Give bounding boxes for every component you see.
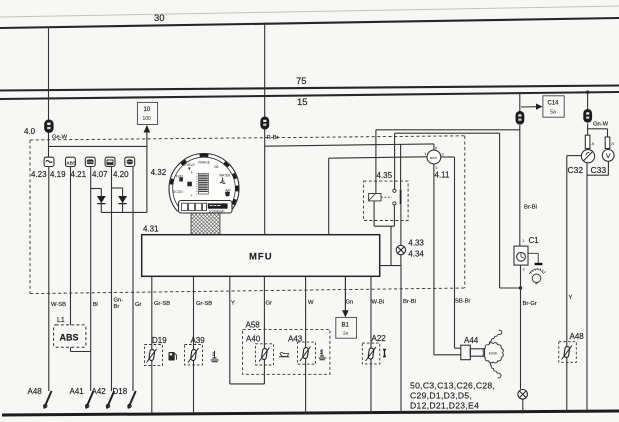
clock C1 [514,236,539,272]
wire W-Bl pin7 to A22 [370,277,372,414]
svg-text:V: V [606,153,611,160]
svg-text:C32: C32 [568,165,584,175]
svg-text:A48: A48 [570,332,585,341]
svg-text:4.07: 4.07 [92,170,108,179]
ground bus bottom [2,411,619,415]
fuel computer B1 [336,317,357,338]
warning lamp 4.33 4.34 [396,204,424,266]
svg-text:MFU: MFU [249,252,273,263]
sender A22 [362,334,386,364]
ABS control unit L1 [54,317,91,352]
clock C1 lamp to ground [528,253,545,284]
warning lamp 4.20 [113,157,135,179]
voltmeter C33 [591,150,615,176]
wire Gr pin4 to A40 [263,277,265,384]
dashed boundary box 4.0 [24,127,465,294]
inline connector a (C33) [605,137,614,149]
cluster connector stem (crosshatched) [191,213,220,235]
svg-text:15: 15 [297,97,308,108]
bottom switch D18 [113,387,136,409]
wire Gn-W from bus 15 [586,91,609,136]
connector capsule on Ge-W wire [44,120,53,133]
svg-text:A39: A39 [191,336,206,345]
svg-text:Gr: Gr [135,302,142,308]
wire R-Br from bus 30 [265,23,279,235]
svg-text:D12,D21,D23,E4: D12,D21,D23,E4 [410,401,479,411]
wire W pin5 to A43 [305,277,307,414]
diode D a [91,189,106,213]
svg-text:4.33: 4.33 [408,239,424,248]
svg-text:Gn: Gn [346,300,354,306]
svg-text:Y: Y [569,295,573,301]
sender A39 [185,336,219,365]
bottom switch A41 [70,387,94,409]
svg-text:km/h: km/h [430,156,437,160]
svg-text:Gr: Gr [266,301,273,307]
sender A48 right [559,332,584,362]
svg-text:C33: C33 [591,165,607,175]
fuel gauge C32 [568,150,595,175]
wire Ge-W from bus 30 [49,27,68,158]
fuse box C14 5a [543,96,564,117]
wire Bl from 4.21 down [90,167,92,392]
svg-text:W-Bl: W-Bl [372,300,384,306]
svg-text:ABS: ABS [66,161,76,166]
svg-text:4.31: 4.31 [143,225,159,234]
svg-text:OIL: OIL [214,165,219,169]
bus 15 [0,92,619,108]
warning lamp 4.23 [31,157,54,179]
wire Gr-SB pin1 to D19 [151,277,153,414]
wire R-Br horizontal branch to 4.11 pin 4 [265,144,434,150]
cluster odometer window [179,201,233,214]
svg-text:L1: L1 [57,317,65,324]
bottom switch A48 [28,387,52,409]
svg-text:4.20: 4.20 [113,170,129,179]
wire relay contact to Br-Gr junction [395,133,523,289]
sender A43 [288,335,326,365]
warning lamp feed rail [49,145,147,147]
wire Gr from 4.20 down [132,167,134,392]
svg-text:A40: A40 [246,335,261,344]
warning lamp 4.19 [50,157,76,179]
wire 4.11 pin1 to MFU [329,157,427,235]
svg-text:ECON: ECON [173,190,183,194]
connector capsule on C14 wire [516,111,525,125]
wire C32 to Y column [567,156,582,413]
wire relay coil and contact to MFU [374,201,394,266]
wire Gn-Br from 4.07 down [111,167,113,392]
svg-text:4.23: 4.23 [31,170,47,179]
svg-text:W: W [308,300,314,306]
wire 4.11 pin3 down to A44 [434,164,461,355]
bus 75 [0,76,619,91]
svg-text:Gn-: Gn- [114,298,124,304]
bottom switch A42 [92,387,115,409]
bottom wire labels row [51,295,573,310]
wire relay supply from connector 15 [376,130,520,194]
relay 4.35 [364,171,409,220]
wire 4.11 pin2 SB-Br down [441,157,461,348]
svg-text:A58: A58 [246,321,261,330]
svg-text:WATER: WATER [219,174,231,178]
svg-text:4.0: 4.0 [24,127,36,136]
sender A40 [246,335,290,366]
svg-text:4.34: 4.34 [408,250,424,259]
wire branch to C33 [588,129,608,138]
svg-text:4.11: 4.11 [435,171,451,180]
svg-text:Br-Gr: Br-Gr [523,301,537,307]
svg-text:Gr-SB: Gr-SB [196,301,212,307]
instrument cluster 4.32 [151,154,239,224]
wire Br-Bl down from node [400,266,402,413]
svg-text:A/R: A/R [225,189,231,193]
svg-text:2a: 2a [343,331,349,336]
label Br-Bl right [524,205,537,211]
svg-text:Y: Y [231,301,235,307]
wire 15 feed to C14 and C1 [519,93,521,246]
svg-text:Ge-W: Ge-W [52,135,68,141]
svg-text:4.19: 4.19 [50,170,66,179]
arrow to fuse C14 [521,104,543,110]
diode junction rail [101,211,147,213]
svg-text:D19: D19 [152,336,167,345]
wire W-SB from 4.23 down [48,167,50,392]
svg-text:C29,D1,D3,D5,: C29,D1,D3,D5, [410,391,472,401]
speed sensor A44 [461,330,504,378]
wire Gn pin6 to B1 with arrow [342,277,349,318]
bus 30 [0,13,619,28]
wire Br-Gr down with lamp [518,265,528,413]
svg-text:100: 100 [143,116,152,122]
wire Gr-SB pin2 to A39 [193,277,195,414]
inline connector a (C32) [585,135,594,148]
svg-text:10: 10 [144,107,151,113]
svg-text:Br: Br [114,304,120,310]
svg-text:A22: A22 [372,334,387,343]
warning lamp 4.21 [71,157,96,179]
text block connector list [410,381,495,411]
svg-text:A44: A44 [464,336,479,345]
svg-text:75: 75 [296,76,307,87]
svg-text:C1: C1 [529,236,540,245]
diode D b [112,188,128,212]
oil unit A58 box [243,321,330,375]
svg-text:A43: A43 [288,335,303,344]
MFU box 4.31 [142,225,380,277]
svg-text:Br-Bl: Br-Bl [403,299,416,305]
svg-text:A42: A42 [92,387,107,396]
svg-text:ABS: ABS [60,333,79,343]
svg-text:A41: A41 [70,387,85,396]
svg-text:km/h: km/h [489,351,498,356]
svg-text:30: 30 [154,13,165,24]
svg-text:Bl: Bl [93,302,98,308]
wire from 4.19 to ABS [70,167,72,326]
faint page border line top [0,6,619,17]
svg-text:5a: 5a [550,110,556,116]
svg-text:4.21: 4.21 [71,170,87,179]
sender D19 [145,336,177,366]
svg-text:a: a [592,141,595,146]
svg-text:4.32: 4.32 [151,168,167,177]
svg-text:C14: C14 [548,101,560,107]
svg-text:B1: B1 [342,323,350,329]
svg-text:Gr-SB: Gr-SB [154,301,170,307]
connector capsule on Gn-W wire [583,109,592,123]
wire C32 C33 common down [587,161,608,413]
svg-text:Br-Bl: Br-Bl [524,205,537,211]
svg-text:RANGE: RANGE [199,161,210,165]
fuse box 10/100 [137,102,157,124]
svg-text:A48: A48 [28,387,43,396]
svg-text:50,C3,C13,C26,C28,: 50,C3,C13,C26,C28, [410,381,495,391]
svg-text:R-Br: R-Br [267,135,279,141]
svg-text:SB-Br: SB-Br [455,299,471,305]
wire node to MFU right side [380,265,401,267]
svg-text:a: a [611,141,614,146]
svg-text:4.35: 4.35 [377,171,393,180]
svg-text:LEVELS: LEVELS [183,163,195,167]
svg-text:D18: D18 [113,387,128,396]
arrow to fuse box [144,125,151,212]
warning lamp 4.07 [92,157,115,179]
svg-text:Gn-W: Gn-W [593,122,609,128]
svg-text:W-SB: W-SB [51,302,66,308]
connector capsule on R-Br wire [260,117,269,130]
wire R-Br branch down to relay blade [400,144,402,189]
speed signal unit 4.11 [424,145,450,180]
wire Y loop pin3 [230,277,265,384]
